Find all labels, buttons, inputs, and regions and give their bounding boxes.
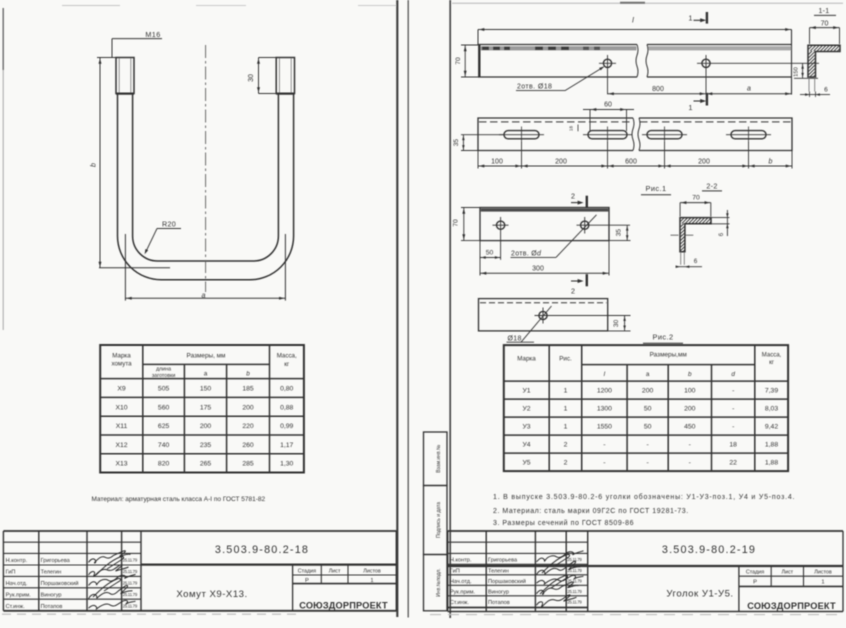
left page top border (faint): [62, 5, 120, 7]
right doc number field: [448, 565, 843, 567]
svg-text:22: 22: [729, 460, 737, 467]
svg-text:1-1: 1-1: [818, 8, 829, 15]
svg-text:505: 505: [158, 386, 170, 393]
dimension a (bottom): [124, 234, 126, 301]
svg-text:У4: У4: [522, 442, 530, 449]
svg-text:d: d: [731, 371, 735, 378]
dimension 60 over slot2: [589, 110, 591, 132]
plate1 hole1: [497, 221, 505, 229]
svg-text:2: 2: [564, 442, 568, 449]
svg-text:150: 150: [200, 386, 212, 393]
svg-text:У3: У3: [522, 424, 530, 431]
svg-text:1,88: 1,88: [765, 460, 778, 467]
svg-text:35: 35: [616, 229, 623, 237]
svg-text:Телегин: Телегин: [41, 570, 62, 576]
svg-text:кг: кг: [769, 360, 775, 366]
svg-text:l: l: [604, 371, 606, 378]
svg-text:600: 600: [625, 158, 637, 165]
svg-text:6: 6: [718, 232, 725, 236]
svg-text:хомута: хомута: [111, 361, 132, 368]
svg-text:-: -: [646, 460, 648, 467]
svg-text:Поршаковский: Поршаковский: [41, 580, 79, 587]
svg-text:ГиП: ГиП: [6, 570, 16, 576]
dimension b (left): [99, 58, 101, 269]
svg-text:18: 18: [729, 442, 737, 449]
svg-text:625: 625: [158, 423, 170, 430]
svg-text:6: 6: [824, 87, 828, 94]
svg-text:50: 50: [486, 250, 494, 257]
bar1 flange band: [481, 46, 637, 50]
svg-text:70: 70: [692, 194, 700, 201]
svg-text:Х13: Х13: [115, 461, 127, 468]
svg-text:Листов: Листов: [363, 568, 381, 574]
svg-text:СОЮЗДОРПРОЕКТ: СОЮЗДОРПРОЕКТ: [299, 601, 388, 611]
right title block: [448, 531, 843, 612]
left doc number field: [141, 563, 396, 565]
svg-text:Размеры, мм: Размеры, мм: [187, 353, 226, 360]
bar1 hole 1: [603, 59, 611, 67]
svg-text:длина: длина: [156, 367, 171, 373]
svg-text:70: 70: [821, 20, 829, 27]
section mark 2 bottom: [586, 274, 588, 286]
svg-text:-: -: [732, 406, 734, 413]
svg-text:У5: У5: [522, 460, 530, 467]
svg-text:100: 100: [684, 388, 696, 395]
section mark 1 bottom: [706, 93, 708, 106]
svg-text:Виногур: Виногур: [488, 590, 509, 596]
svg-text:8,03: 8,03: [765, 406, 778, 413]
svg-text:1: 1: [564, 388, 568, 395]
svg-text:Марка: Марка: [517, 356, 536, 363]
section 2-2 angle profile: [680, 218, 711, 252]
svg-text:Рис.1: Рис.1: [646, 184, 667, 193]
svg-text:Р: Р: [753, 580, 757, 586]
svg-text:70: 70: [453, 219, 460, 227]
svg-text:0,88: 0,88: [280, 404, 293, 411]
section 1-1 leg continuation: [808, 77, 810, 92]
svg-text:Размеры,мм: Размеры,мм: [650, 352, 687, 359]
svg-text:Н.контр.: Н.контр.: [6, 558, 28, 564]
left title signatures: [89, 551, 131, 563]
svg-text:У1: У1: [522, 388, 530, 395]
svg-text:6: 6: [694, 258, 698, 265]
svg-text:-: -: [603, 442, 605, 449]
svg-text:560: 560: [158, 404, 170, 411]
svg-text:300: 300: [532, 266, 544, 273]
section 2-2 right dim 6: [711, 217, 730, 219]
bar1 length dimension l: [478, 29, 792, 31]
svg-text:b: b: [89, 163, 98, 167]
svg-text:50: 50: [644, 424, 652, 431]
plate1 dim 35 right: [609, 240, 631, 242]
bar2 break: [632, 118, 634, 150]
dimension 30 (right leg): [258, 58, 260, 94]
svg-text:Потапов: Потапов: [41, 604, 63, 610]
U-bolt left leg thread: [116, 58, 134, 94]
section 2-2 hole centerline: [671, 234, 694, 236]
svg-text:260: 260: [242, 442, 254, 449]
right page left border: [449, 0, 451, 618]
svg-text:800: 800: [652, 86, 664, 93]
left page right border: [396, 0, 398, 617]
U-bolt right leg thread: [276, 58, 294, 94]
bar2 outline: [478, 118, 792, 151]
svg-text:Ст.инж.: Ст.инж.: [450, 600, 469, 606]
svg-text:3.503.9-80.2-18: 3.503.9-80.2-18: [215, 544, 309, 556]
svg-text:Рук.прим.: Рук.прим.: [450, 590, 476, 596]
thread bottom heavy lines: [116, 92, 134, 94]
dimension 150 (right of bar1): [802, 63, 804, 78]
plate1 dim 50: [479, 241, 481, 276]
plate1 dim 300: [608, 241, 610, 276]
svg-text:1,30: 1,30: [280, 461, 293, 468]
left stage table: [292, 565, 294, 611]
svg-text:25.11.79: 25.11.79: [123, 581, 138, 586]
svg-text:заготовки: заготовки: [152, 373, 175, 379]
svg-text:2: 2: [571, 191, 575, 200]
svg-text:Х9: Х9: [117, 386, 126, 393]
U-bolt body outline: [118, 94, 294, 280]
svg-text:1: 1: [821, 580, 824, 586]
svg-text:2: 2: [564, 460, 568, 467]
svg-text:Виногур: Виногур: [41, 592, 62, 598]
bottom scan shadow dashes: [2, 613, 300, 615]
svg-text:Рук.прим.: Рук.прим.: [6, 592, 32, 598]
svg-text:ГиП: ГиП: [450, 569, 460, 575]
svg-text:265: 265: [200, 461, 212, 468]
svg-text:У2: У2: [522, 406, 530, 413]
page gap second line: [407, 0, 409, 618]
svg-text:220: 220: [242, 423, 254, 430]
svg-text:1: 1: [564, 406, 568, 413]
svg-text:Х12: Х12: [115, 442, 127, 449]
svg-text:25.11.79: 25.11.79: [123, 558, 138, 563]
svg-text:-: -: [689, 442, 691, 449]
plate1 top band: [481, 208, 609, 211]
svg-text:b: b: [688, 371, 692, 378]
svg-text:3.503.9-80.2-19: 3.503.9-80.2-19: [662, 544, 756, 556]
svg-text:Стадия: Стадия: [746, 570, 764, 576]
svg-text:3. Размеры сечений по ГОСТ 850: 3. Размеры сечений по ГОСТ 8509-86: [493, 519, 634, 527]
svg-text:-: -: [603, 460, 605, 467]
svg-text:2отв. Ød: 2отв. Ød: [511, 250, 542, 257]
svg-text:0,99: 0,99: [280, 423, 293, 430]
svg-text:1: 1: [688, 103, 692, 112]
svg-text:СОЮЗДОРПРОЕКТ: СОЮЗДОРПРОЕКТ: [747, 601, 836, 611]
svg-text:18: 18: [569, 126, 574, 132]
svg-text:Марка: Марка: [112, 353, 131, 360]
svg-text:Григорьева: Григорьева: [488, 558, 518, 564]
svg-text:450: 450: [684, 424, 696, 431]
svg-text:Рис.2: Рис.2: [653, 333, 674, 342]
svg-text:Хомут Х9-Х13.: Хомут Х9-Х13.: [176, 589, 247, 600]
svg-text:Лист: Лист: [781, 570, 793, 576]
section 1-1 thickness dim 6: [800, 94, 830, 96]
svg-text:Телегин: Телегин: [488, 569, 509, 575]
right stage table: [738, 566, 740, 612]
svg-text:200: 200: [555, 158, 567, 165]
svg-text:1. В выпуске 3.503.9-80.2-6 уг: 1. В выпуске 3.503.9-80.2-6 уголки обозн…: [493, 493, 795, 501]
svg-text:Х10: Х10: [115, 404, 127, 411]
svg-text:1: 1: [370, 578, 373, 584]
svg-text:1550: 1550: [597, 424, 612, 431]
right title signatures: [537, 551, 584, 562]
bar1 break: [636, 45, 638, 78]
svg-text:Масса,: Масса,: [277, 353, 297, 360]
svg-text:Взам.инв.№: Взам.инв.№: [436, 445, 442, 473]
svg-text:60: 60: [604, 102, 612, 109]
dimension 70 (left of bar1): [461, 44, 478, 46]
svg-text:25.11.79: 25.11.79: [123, 603, 138, 608]
bar2 bottom dimensions: [477, 151, 479, 169]
svg-text:70: 70: [455, 57, 462, 65]
svg-text:Нач.отд.: Нач.отд.: [450, 579, 472, 585]
section 2-2 bottom dim 6: [676, 266, 702, 268]
svg-text:25.11.79: 25.11.79: [567, 589, 582, 594]
svg-text:Х11: Х11: [116, 423, 128, 430]
svg-text:1,88: 1,88: [765, 442, 778, 449]
right table grid: [504, 345, 788, 471]
svg-text:2. Материал: сталь марки 09Г2С: 2. Материал: сталь марки 09Г2С по ГОСТ 1…: [493, 508, 689, 515]
svg-text:R20: R20: [162, 220, 176, 229]
svg-text:200: 200: [698, 158, 710, 165]
svg-text:Уголок У1-У5.: Уголок У1-У5.: [666, 588, 733, 599]
svg-text:30: 30: [613, 319, 620, 327]
plate2 dashed bend line: [480, 302, 607, 304]
sidebar stamp boxes: [424, 432, 448, 611]
svg-text:Н.контр.: Н.контр.: [450, 558, 472, 564]
svg-text:0,80: 0,80: [280, 386, 293, 393]
svg-text:2-2: 2-2: [706, 181, 717, 190]
svg-text:150: 150: [794, 67, 800, 77]
dimension 800 + a: [607, 71, 609, 94]
svg-text:9,42: 9,42: [765, 424, 778, 431]
svg-text:Поршаковский: Поршаковский: [488, 578, 526, 585]
bar2 slots: [504, 131, 539, 139]
svg-text:кг: кг: [284, 361, 290, 368]
svg-text:1300: 1300: [597, 406, 612, 413]
bar1 outline: [478, 30, 792, 95]
svg-text:Стадия: Стадия: [298, 568, 316, 574]
svg-text:M16: M16: [145, 30, 160, 39]
svg-text:1200: 1200: [597, 388, 612, 395]
svg-text:l: l: [632, 16, 634, 25]
bar1 hole 2: [702, 59, 710, 67]
section 2-2 leg continuation: [680, 252, 682, 265]
svg-text:Листов: Листов: [814, 570, 832, 576]
svg-text:200: 200: [684, 406, 696, 413]
svg-text:-: -: [646, 442, 648, 449]
svg-text:25.11.79: 25.11.79: [123, 569, 138, 574]
svg-text:1: 1: [564, 424, 568, 431]
svg-text:-: -: [732, 424, 734, 431]
svg-text:Масса,: Масса,: [762, 353, 782, 359]
svg-text:740: 740: [158, 442, 170, 449]
svg-text:100: 100: [491, 158, 503, 165]
plate1 outline: [480, 208, 609, 241]
svg-text:Нач.отд.: Нач.отд.: [6, 581, 28, 587]
dimension 35 (left of bar2): [461, 134, 504, 136]
left page left border: [2, 8, 4, 70]
svg-text:25.11.79: 25.11.79: [123, 592, 138, 597]
plate1 dim 70 left: [461, 207, 480, 209]
section 1-1 angle profile: [808, 45, 840, 77]
svg-text:Подпись и дата: Подпись и дата: [436, 502, 442, 538]
svg-text:200: 200: [242, 404, 254, 411]
svg-text:2: 2: [571, 287, 575, 296]
plate2 outline: [479, 299, 608, 331]
svg-text:235: 235: [200, 442, 212, 449]
svg-text:а: а: [204, 371, 208, 378]
svg-text:7,39: 7,39: [765, 388, 778, 395]
svg-text:Р: Р: [305, 578, 309, 584]
plate2 hole: [539, 311, 547, 319]
svg-text:-: -: [689, 460, 691, 467]
svg-text:-: -: [732, 388, 734, 395]
svg-text:50: 50: [644, 406, 652, 413]
svg-text:b: b: [246, 371, 250, 378]
centerline: [205, 45, 207, 292]
svg-text:200: 200: [200, 423, 212, 430]
svg-text:Рис.: Рис.: [559, 356, 572, 363]
svg-text:30: 30: [248, 74, 255, 82]
svg-text:35: 35: [453, 139, 460, 147]
right page top border: [452, 2, 843, 4]
left table grid: [100, 345, 304, 473]
slot width mini dim: [577, 125, 579, 132]
svg-text:185: 185: [242, 386, 254, 393]
svg-text:Ø18: Ø18: [508, 335, 522, 342]
svg-text:Материал: арматурная сталь кла: Материал: арматурная сталь класса А-I по…: [92, 496, 266, 503]
svg-text:Ст.инж.: Ст.инж.: [6, 604, 25, 610]
left title block: [3, 531, 396, 611]
svg-text:Потапов: Потапов: [488, 600, 510, 606]
svg-text:175: 175: [200, 404, 212, 411]
svg-text:200: 200: [642, 388, 654, 395]
svg-text:Лист: Лист: [329, 568, 341, 574]
svg-text:2отв. Ø18: 2отв. Ø18: [517, 84, 552, 91]
plate1 hole2: [581, 221, 589, 229]
svg-text:1: 1: [688, 14, 692, 23]
svg-text:820: 820: [158, 461, 170, 468]
svg-text:Инв.№подл.: Инв.№подл.: [436, 568, 442, 596]
bar2 bend dashed line: [479, 121, 632, 123]
plate2 dim 30: [608, 330, 631, 332]
svg-text:25.11.79: 25.11.79: [567, 600, 582, 605]
svg-text:Григорьева: Григорьева: [41, 558, 71, 564]
svg-text:a: a: [747, 86, 751, 93]
svg-text:1,17: 1,17: [280, 442, 293, 449]
svg-text:a: a: [202, 291, 206, 300]
svg-text:а: а: [646, 371, 650, 378]
svg-text:285: 285: [242, 461, 254, 468]
svg-text:b: b: [769, 158, 773, 165]
